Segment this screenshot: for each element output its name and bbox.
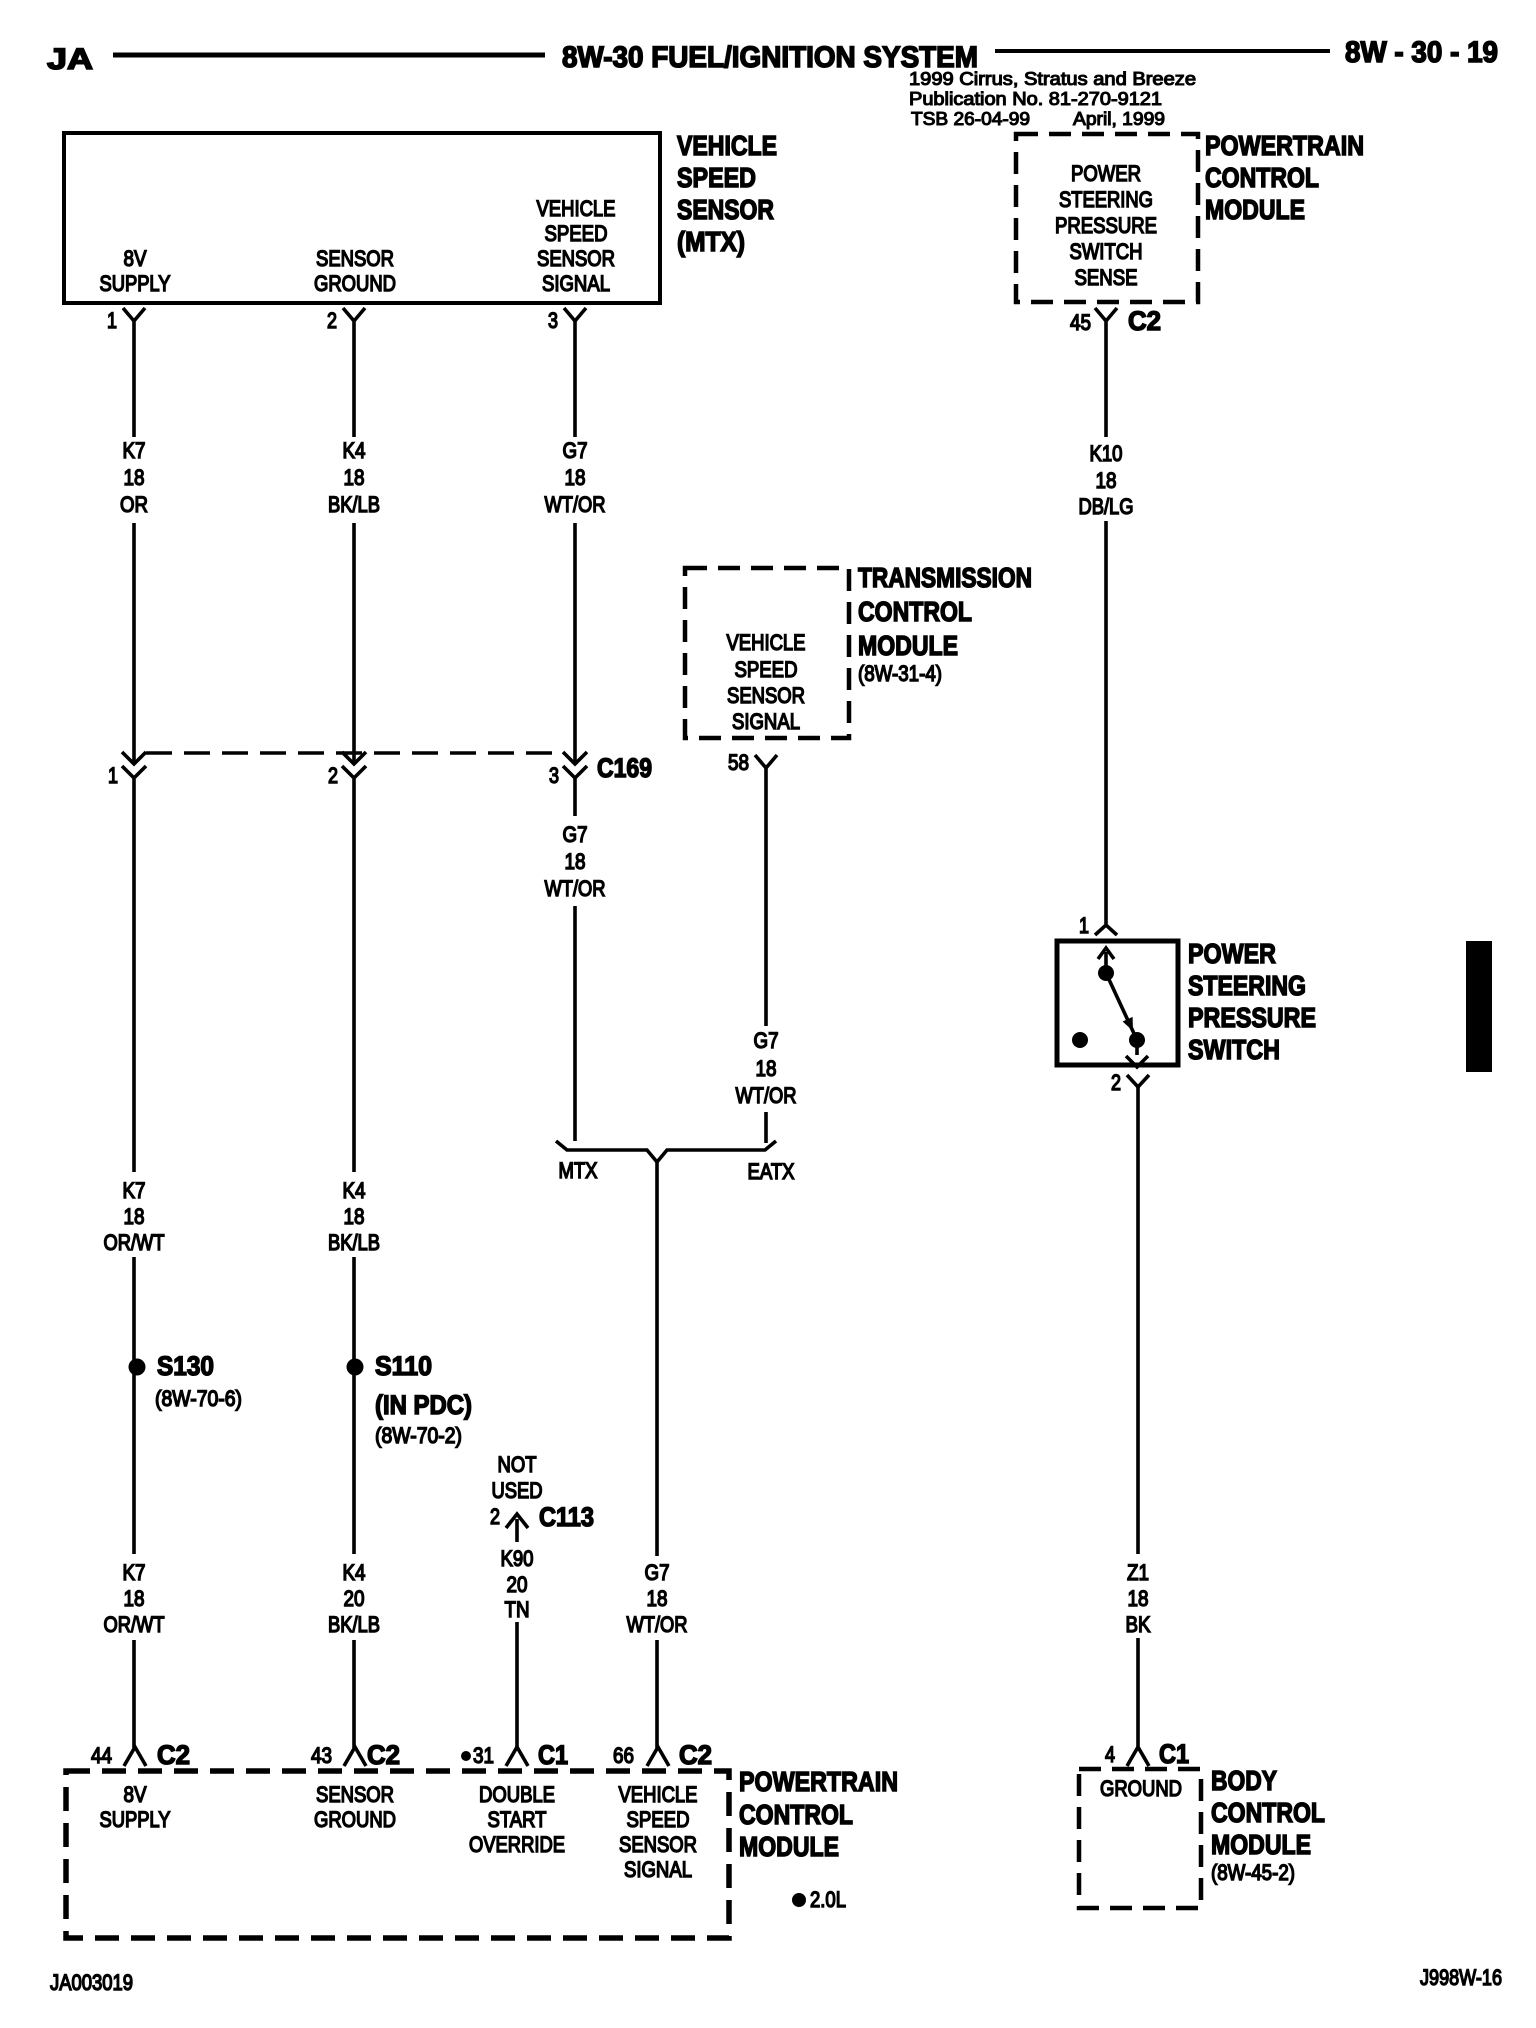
svg-text:G7: G7 xyxy=(563,438,588,463)
svg-text:20: 20 xyxy=(507,1572,528,1597)
svg-text:18: 18 xyxy=(1096,468,1117,493)
svg-text:K4: K4 xyxy=(343,1560,366,1585)
svg-text:TSB 26-04-99: TSB 26-04-99 xyxy=(911,109,1030,129)
svg-text:18: 18 xyxy=(565,849,586,874)
svg-text:DOUBLE: DOUBLE xyxy=(479,1782,555,1807)
svg-text:C1: C1 xyxy=(1159,1739,1189,1769)
svg-text:MODULE: MODULE xyxy=(858,630,958,661)
svg-text:K4: K4 xyxy=(343,438,366,463)
svg-text:SPEED: SPEED xyxy=(627,1807,690,1832)
svg-text:18: 18 xyxy=(124,1204,145,1229)
svg-text:S110: S110 xyxy=(375,1351,432,1381)
svg-text:BK/LB: BK/LB xyxy=(328,1612,380,1637)
svg-text:SENSE: SENSE xyxy=(1075,265,1138,290)
svg-text:2: 2 xyxy=(328,763,338,788)
svg-text:8W - 30 - 19: 8W - 30 - 19 xyxy=(1345,36,1498,69)
svg-text:3: 3 xyxy=(548,308,558,333)
svg-text:58: 58 xyxy=(728,750,749,775)
svg-text:8V: 8V xyxy=(124,1782,147,1807)
svg-text:18: 18 xyxy=(756,1056,777,1081)
svg-text:SIGNAL: SIGNAL xyxy=(624,1857,692,1882)
svg-text:April, 1999: April, 1999 xyxy=(1073,109,1165,129)
svg-text:2: 2 xyxy=(490,1504,500,1529)
svg-text:1: 1 xyxy=(108,763,118,788)
svg-text:(IN PDC): (IN PDC) xyxy=(375,1390,472,1420)
svg-text:C2: C2 xyxy=(367,1740,400,1770)
svg-text:Z1: Z1 xyxy=(1127,1560,1149,1585)
svg-text:SENSOR: SENSOR xyxy=(316,246,394,271)
svg-text:SPEED: SPEED xyxy=(545,221,608,246)
svg-text:SWITCH: SWITCH xyxy=(1188,1034,1280,1065)
svg-text:8V: 8V xyxy=(124,246,147,271)
svg-text:(8W-31-4): (8W-31-4) xyxy=(858,661,942,686)
svg-text:(MTX): (MTX) xyxy=(677,226,745,257)
svg-text:EATX: EATX xyxy=(748,1159,795,1184)
svg-text:START: START xyxy=(488,1807,547,1832)
svg-text:K10: K10 xyxy=(1090,441,1123,466)
svg-text:44: 44 xyxy=(91,1743,112,1768)
svg-text:18: 18 xyxy=(124,1586,145,1611)
svg-text:K7: K7 xyxy=(123,438,146,463)
svg-text:OR/WT: OR/WT xyxy=(104,1230,165,1255)
svg-text:SPEED: SPEED xyxy=(677,162,756,193)
svg-text:SIGNAL: SIGNAL xyxy=(732,709,800,734)
svg-text:OR: OR xyxy=(120,492,148,517)
svg-text:GROUND: GROUND xyxy=(1100,1776,1182,1801)
svg-text:SWITCH: SWITCH xyxy=(1070,239,1143,264)
svg-text:DB/LG: DB/LG xyxy=(1079,494,1134,519)
svg-text:VEHICLE: VEHICLE xyxy=(677,130,777,161)
svg-text:3: 3 xyxy=(549,763,559,788)
svg-text:SPEED: SPEED xyxy=(735,657,798,682)
svg-text:K4: K4 xyxy=(343,1178,366,1203)
svg-text:4: 4 xyxy=(1105,1742,1115,1767)
svg-text:SENSOR: SENSOR xyxy=(677,194,774,225)
svg-text:1: 1 xyxy=(107,308,117,333)
svg-text:18: 18 xyxy=(565,465,586,490)
svg-text:(8W-45-2): (8W-45-2) xyxy=(1211,1860,1295,1885)
svg-text:S130: S130 xyxy=(157,1351,214,1381)
svg-text:C2: C2 xyxy=(1128,306,1161,336)
svg-text:66: 66 xyxy=(613,1743,634,1768)
svg-text:18: 18 xyxy=(124,465,145,490)
svg-text:G7: G7 xyxy=(563,822,588,847)
svg-text:20: 20 xyxy=(344,1586,365,1611)
svg-text:BODY: BODY xyxy=(1211,1765,1277,1796)
svg-text:USED: USED xyxy=(492,1478,543,1503)
svg-text:POWERTRAIN: POWERTRAIN xyxy=(1205,130,1364,161)
svg-text:Publication No. 81-270-9121: Publication No. 81-270-9121 xyxy=(909,89,1162,109)
svg-text:MODULE: MODULE xyxy=(739,1831,839,1862)
svg-text:K7: K7 xyxy=(123,1178,146,1203)
svg-text:OVERRIDE: OVERRIDE xyxy=(469,1832,565,1857)
svg-text:NOT: NOT xyxy=(498,1452,537,1477)
svg-text:GROUND: GROUND xyxy=(314,271,396,296)
svg-text:SENSOR: SENSOR xyxy=(537,246,615,271)
svg-text:C1: C1 xyxy=(538,1740,568,1770)
svg-text:C169: C169 xyxy=(597,753,652,783)
svg-text:WT/OR: WT/OR xyxy=(627,1612,688,1637)
svg-text:BK: BK xyxy=(1126,1612,1151,1637)
svg-text:45: 45 xyxy=(1070,310,1091,335)
svg-text:BK/LB: BK/LB xyxy=(328,1230,380,1255)
svg-text:PRESSURE: PRESSURE xyxy=(1188,1002,1316,1033)
svg-text:C113: C113 xyxy=(539,1502,594,1532)
svg-text:K90: K90 xyxy=(501,1546,534,1571)
svg-text:VEHICLE: VEHICLE xyxy=(727,630,806,655)
svg-text:VEHICLE: VEHICLE xyxy=(537,196,616,221)
svg-text:WT/OR: WT/OR xyxy=(545,876,606,901)
svg-text:43: 43 xyxy=(311,1743,332,1768)
svg-text:STEERING: STEERING xyxy=(1059,187,1153,212)
svg-text:WT/OR: WT/OR xyxy=(736,1083,797,1108)
svg-text:C2: C2 xyxy=(157,1740,190,1770)
svg-text:1: 1 xyxy=(1079,913,1089,938)
svg-text:2: 2 xyxy=(1111,1070,1121,1095)
svg-text:CONTROL: CONTROL xyxy=(1205,162,1319,193)
svg-text:TN: TN xyxy=(505,1597,530,1622)
svg-text:(8W-70-2): (8W-70-2) xyxy=(375,1423,462,1448)
svg-text:WT/OR: WT/OR xyxy=(545,492,606,517)
svg-text:2.0L: 2.0L xyxy=(810,1887,846,1912)
svg-text:18: 18 xyxy=(344,1204,365,1229)
svg-text:STEERING: STEERING xyxy=(1188,970,1306,1001)
svg-text:18: 18 xyxy=(647,1586,668,1611)
svg-text:18: 18 xyxy=(1128,1586,1149,1611)
svg-text:J998W-16: J998W-16 xyxy=(1420,1965,1502,1990)
svg-text:BK/LB: BK/LB xyxy=(328,492,380,517)
svg-text:MTX: MTX xyxy=(559,1158,598,1183)
svg-text:C2: C2 xyxy=(679,1740,712,1770)
svg-text:SUPPLY: SUPPLY xyxy=(100,271,171,296)
svg-text:SENSOR: SENSOR xyxy=(727,683,805,708)
svg-text:CONTROL: CONTROL xyxy=(1211,1797,1325,1828)
svg-text:POWER: POWER xyxy=(1071,161,1141,186)
svg-text:SIGNAL: SIGNAL xyxy=(542,271,610,296)
svg-text:VEHICLE: VEHICLE xyxy=(619,1782,698,1807)
svg-text:POWERTRAIN: POWERTRAIN xyxy=(739,1766,898,1797)
svg-text:JA: JA xyxy=(47,43,93,76)
svg-text:31: 31 xyxy=(473,1743,494,1768)
svg-text:MODULE: MODULE xyxy=(1205,194,1305,225)
svg-text:CONTROL: CONTROL xyxy=(858,596,972,627)
svg-text:SENSOR: SENSOR xyxy=(619,1832,697,1857)
svg-text:CONTROL: CONTROL xyxy=(739,1799,853,1830)
svg-text:OR/WT: OR/WT xyxy=(104,1612,165,1637)
svg-text:JA003019: JA003019 xyxy=(50,1970,133,1995)
svg-text:GROUND: GROUND xyxy=(314,1807,396,1832)
svg-text:G7: G7 xyxy=(754,1028,779,1053)
svg-text:18: 18 xyxy=(344,465,365,490)
svg-text:SUPPLY: SUPPLY xyxy=(100,1807,171,1832)
svg-text:TRANSMISSION: TRANSMISSION xyxy=(858,562,1032,593)
svg-text:POWER: POWER xyxy=(1188,938,1276,969)
svg-text:MODULE: MODULE xyxy=(1211,1829,1311,1860)
svg-text:G7: G7 xyxy=(645,1560,670,1585)
svg-text:PRESSURE: PRESSURE xyxy=(1055,213,1157,238)
svg-text:K7: K7 xyxy=(123,1560,146,1585)
svg-text:1999 Cirrus, Stratus and Breez: 1999 Cirrus, Stratus and Breeze xyxy=(909,69,1196,89)
svg-text:SENSOR: SENSOR xyxy=(316,1782,394,1807)
svg-text:2: 2 xyxy=(327,308,337,333)
svg-text:(8W-70-6): (8W-70-6) xyxy=(155,1386,242,1411)
